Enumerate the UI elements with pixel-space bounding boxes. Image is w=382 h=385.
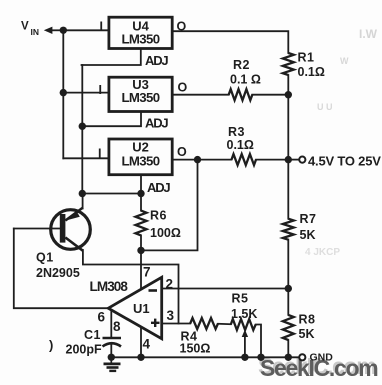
node emitter junction	[79, 190, 86, 197]
wire pin 2 to divider tap	[162, 288, 289, 290]
resistor R2	[229, 58, 261, 100]
output terminal	[299, 154, 381, 169]
wire V_IN stub	[52, 29, 64, 31]
wire R4 to R5	[218, 323, 231, 325]
svg-text:LM308: LM308	[90, 279, 129, 294]
svg-text:LM350: LM350	[121, 90, 159, 105]
svg-text:3: 3	[167, 308, 175, 323]
wire U2 output to R3	[173, 159, 232, 161]
wire Q1 emitter stub	[82, 194, 84, 209]
wire U4 output to right rail	[173, 31, 289, 53]
svg-text:W: W	[340, 56, 349, 66]
svg-text:8: 8	[113, 319, 121, 334]
node R6 bottom junction	[137, 247, 144, 254]
svg-text:7: 7	[143, 265, 151, 280]
node U2 ADJ junction	[137, 190, 144, 197]
wire U2 ADJ	[140, 175, 142, 210]
svg-text:R2: R2	[233, 58, 250, 72]
svg-text:0.1Ω: 0.1Ω	[227, 138, 254, 152]
svg-text:5K: 5K	[299, 327, 315, 341]
resistor R1	[283, 51, 325, 80]
wire U3 output to R2	[173, 94, 229, 96]
svg-text:ADJ: ADJ	[147, 180, 170, 195]
wire U3 input	[63, 92, 108, 94]
svg-text:0.1Ω: 0.1Ω	[298, 65, 325, 79]
node output junction	[285, 156, 292, 163]
svg-text:I.W: I.W	[359, 27, 378, 41]
svg-text:GND: GND	[310, 352, 334, 364]
svg-text:R1: R1	[298, 51, 315, 65]
svg-text:I: I	[99, 83, 102, 97]
svg-text:2N2905: 2N2905	[36, 266, 80, 280]
svg-text:R5: R5	[232, 292, 249, 306]
wire pin 4	[140, 327, 142, 358]
regulator U4	[109, 17, 172, 48]
capacitor C1	[66, 328, 122, 357]
ground	[104, 357, 121, 371]
svg-text:R3: R3	[228, 125, 245, 139]
wire Q1 base	[14, 228, 60, 230]
resistor R7	[283, 212, 317, 242]
svg-text:O: O	[177, 145, 187, 159]
wire right rail R7 to pin2 row	[287, 240, 289, 315]
svg-text:4.5V TO 25V: 4.5V TO 25V	[308, 154, 381, 169]
V_IN label and arrow	[21, 21, 52, 38]
watermark SeekIC.com	[258, 353, 378, 381]
node wiper junction	[241, 354, 248, 361]
regulator U3	[109, 77, 172, 112]
faint ghost marks	[305, 27, 378, 258]
node U3 input tap	[60, 89, 67, 96]
wire output terminal stub	[288, 159, 299, 161]
svg-text:4 JKCP: 4 JKCP	[305, 247, 340, 258]
resistor R8	[283, 313, 316, 342]
wire left input rail	[62, 30, 64, 158]
potentiometer R5	[231, 292, 258, 338]
wire U4 ADJ	[82, 48, 141, 65]
node V_IN junction	[60, 27, 67, 34]
node divider tap junction	[285, 285, 292, 292]
svg-text:R8: R8	[299, 313, 316, 327]
svg-text:IN: IN	[31, 27, 40, 37]
svg-text:LM350: LM350	[121, 31, 159, 46]
wire Q1 collector to pin 3 node	[83, 250, 179, 324]
regulator U2	[109, 139, 172, 175]
svg-text:): )	[49, 338, 53, 353]
resistor R6	[136, 209, 181, 241]
wire R5 wiper	[244, 334, 246, 357]
wire U2 input	[63, 157, 108, 159]
node pin4 junction	[137, 354, 144, 361]
svg-text:2: 2	[166, 277, 174, 292]
node R1 R2 junction	[285, 91, 292, 98]
wire feedback loop from op-amp output to Q1 base	[14, 229, 109, 309]
svg-text:LM350: LM350	[121, 154, 159, 169]
svg-text:C1: C1	[84, 328, 101, 342]
svg-text:U1: U1	[133, 301, 150, 316]
svg-text:ADJ: ADJ	[145, 53, 168, 68]
svg-text:R7: R7	[300, 212, 317, 226]
node R5 end junction	[257, 354, 264, 361]
svg-text:5K: 5K	[300, 228, 316, 242]
svg-text:O: O	[177, 20, 187, 34]
wire ADJ bus	[81, 65, 83, 194]
svg-text:0.1 Ω: 0.1 Ω	[230, 73, 261, 87]
wire ground rail	[111, 356, 299, 358]
wire right rail R1 to R3 row	[287, 75, 289, 219]
resistor R4	[180, 318, 219, 356]
node U3 ADJ tap	[79, 123, 86, 130]
svg-text:150Ω: 150Ω	[180, 342, 211, 356]
wire pin 3 to R4	[162, 323, 191, 325]
svg-text:1.5K: 1.5K	[231, 307, 257, 321]
wire right rail R8 to ground rail	[287, 340, 289, 357]
svg-text:V: V	[21, 21, 29, 33]
wire R2 to rail junction	[252, 94, 288, 96]
svg-text:R6: R6	[150, 209, 167, 223]
svg-text:ADJ: ADJ	[145, 116, 168, 131]
wire R3 to rail junction	[256, 159, 288, 161]
svg-text:I: I	[98, 146, 101, 160]
op-amp U1	[90, 277, 162, 338]
svg-text:4: 4	[143, 337, 151, 352]
svg-text:100Ω: 100Ω	[150, 226, 181, 240]
svg-text:I: I	[100, 20, 103, 34]
transistor Q1	[36, 208, 90, 280]
wire C1 bottom stub	[110, 345, 112, 358]
wire pin 7	[140, 250, 142, 290]
svg-text:O: O	[178, 81, 188, 95]
svg-text:6: 6	[98, 310, 106, 325]
wire pin7 node to U2 output drop	[141, 160, 198, 251]
svg-text:200pF: 200pF	[66, 343, 102, 357]
wire emitter node to U2 ADJ node	[82, 193, 141, 195]
wire U3 ADJ	[82, 112, 141, 126]
node rail ground junction	[285, 354, 292, 361]
wire R6 bottom to pin7 node	[140, 235, 142, 250]
svg-text:U U: U U	[317, 102, 333, 112]
wire V_IN to U4 input	[63, 29, 108, 31]
svg-text:U2: U2	[132, 140, 149, 155]
node U2 output junction	[194, 156, 201, 163]
wire R5 right end drop	[256, 325, 261, 358]
node C1 ground junction	[108, 354, 115, 361]
resistor R3	[227, 125, 257, 165]
GND terminal	[299, 352, 333, 364]
svg-text:Q1: Q1	[36, 251, 54, 265]
wire pin 8	[110, 310, 112, 338]
